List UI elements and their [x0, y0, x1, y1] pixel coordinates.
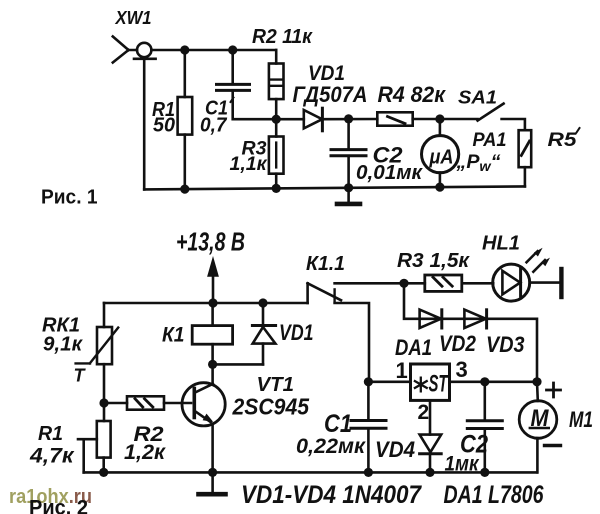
svg-text:+13,8 В: +13,8 В	[176, 227, 245, 257]
svg-text:M1: M1	[569, 407, 593, 432]
svg-text:0,7: 0,7	[200, 115, 227, 137]
svg-text:VD1-VD4 1N4007: VD1-VD4 1N4007	[241, 481, 422, 509]
svg-text:3: 3	[456, 357, 468, 382]
svg-text:VD1: VD1	[279, 320, 314, 345]
svg-text:1,1к: 1,1к	[230, 154, 268, 175]
svg-text:HL1: HL1	[482, 233, 520, 255]
svg-text:0,22мк: 0,22мк	[296, 435, 366, 458]
svg-text:2: 2	[418, 401, 430, 424]
svg-text:R4 82к: R4 82к	[378, 82, 447, 107]
svg-text:μА: μА	[429, 147, 454, 169]
svg-text:VD4: VD4	[375, 437, 415, 462]
svg-text:1мк: 1мк	[445, 453, 480, 476]
svg-text:VD3: VD3	[486, 332, 525, 357]
svg-text:SA1: SA1	[458, 88, 497, 108]
svg-text:ST: ST	[429, 371, 449, 398]
svg-text:50: 50	[153, 115, 175, 137]
svg-text:R3 1,5к: R3 1,5к	[397, 250, 470, 272]
svg-text:Рис. 1: Рис. 1	[41, 187, 98, 209]
svg-text:R1: R1	[38, 423, 63, 445]
svg-text:VD2: VD2	[439, 331, 477, 356]
svg-text:1: 1	[396, 358, 408, 383]
svg-text:9,1к: 9,1к	[43, 334, 83, 356]
svg-text:M: M	[531, 405, 550, 432]
svg-text:„Pw“: „Pw“	[455, 152, 501, 174]
svg-text:Рис. 2: Рис. 2	[29, 496, 88, 514]
svg-text:C1: C1	[324, 410, 352, 438]
svg-text:К1.1: К1.1	[306, 253, 345, 275]
svg-text:DА1: DА1	[395, 335, 432, 360]
svg-text:PA1: PA1	[473, 130, 507, 151]
svg-text:DА1 L7806: DА1 L7806	[444, 481, 545, 509]
svg-text:ГД507А: ГД507А	[293, 82, 368, 107]
svg-text:0,01мк: 0,01мк	[356, 162, 423, 184]
svg-text:R5: R5	[548, 130, 578, 151]
svg-text:R2 11к: R2 11к	[252, 26, 313, 48]
svg-text:2SC945: 2SC945	[232, 394, 311, 420]
svg-text:XW1: XW1	[115, 8, 152, 28]
svg-text:К1: К1	[162, 324, 185, 347]
svg-text:4,7к: 4,7к	[29, 445, 75, 468]
svg-text:1,2к: 1,2к	[124, 441, 166, 464]
